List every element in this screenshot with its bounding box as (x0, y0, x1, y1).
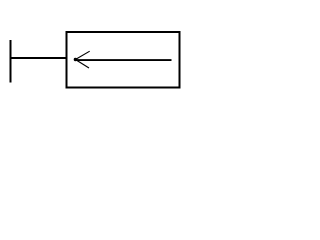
arrow lower barb (76, 60, 89, 68)
arrow shaft (76, 59, 172, 61)
wire (terminal to box) (10, 57, 66, 59)
arrow apex dot (74, 58, 77, 61)
component body (rectangle) (67, 32, 180, 88)
arrow upper barb (76, 51, 90, 59)
terminal bar (left vertical stub) (10, 40, 12, 83)
